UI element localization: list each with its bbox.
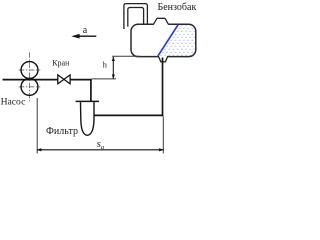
tank sump outlet [158,56,168,62]
wire: valve to corner [70,79,92,81]
svg-text:Бензобак: Бензобак [158,2,197,13]
wire: corner down into filter [90,79,92,102]
acceleration arrow a [71,34,96,39]
pump centerline horizontal lower [19,86,41,88]
filter bell body [81,102,95,135]
filter (Фильтр) top plate [76,100,99,102]
main suction pipe (wire: left edge to valve) [3,79,58,81]
dimension s left extension line (from pump) [36,98,38,154]
pump centerline horizontal upper [19,69,41,71]
svg-text:Фильтр: Фильтр [46,126,78,137]
svg-text:Кран: Кран [52,59,70,68]
tank pickup pipe (wire down from sump) [162,58,164,117]
fuel tank body [131,24,196,56]
dimension s line with arrows [36,148,164,151]
dimension h extension line bottom (pipe level) [92,78,116,80]
pump centerline vertical (dash-dot) [29,52,31,102]
fuel fill pattern (fuel in tank, right of surface) [158,24,197,57]
pump lower circle [21,78,38,95]
filler neck [124,4,147,29]
pump upper circle [21,62,38,79]
dimension s right extension line (from pickup pipe) [162,117,164,154]
fuel surface line (blue) [158,24,179,56]
dimension h arrow line [112,57,115,79]
svg-text:Насос: Насос [1,97,26,108]
valve (Кран) bowtie [58,75,70,84]
filler cap bump [153,18,168,25]
filter outlet pipe (wire to tank pickup) [94,114,163,116]
svg-text:a: a [83,25,88,36]
dimension h extension line top (tank bottom) [112,55,140,57]
